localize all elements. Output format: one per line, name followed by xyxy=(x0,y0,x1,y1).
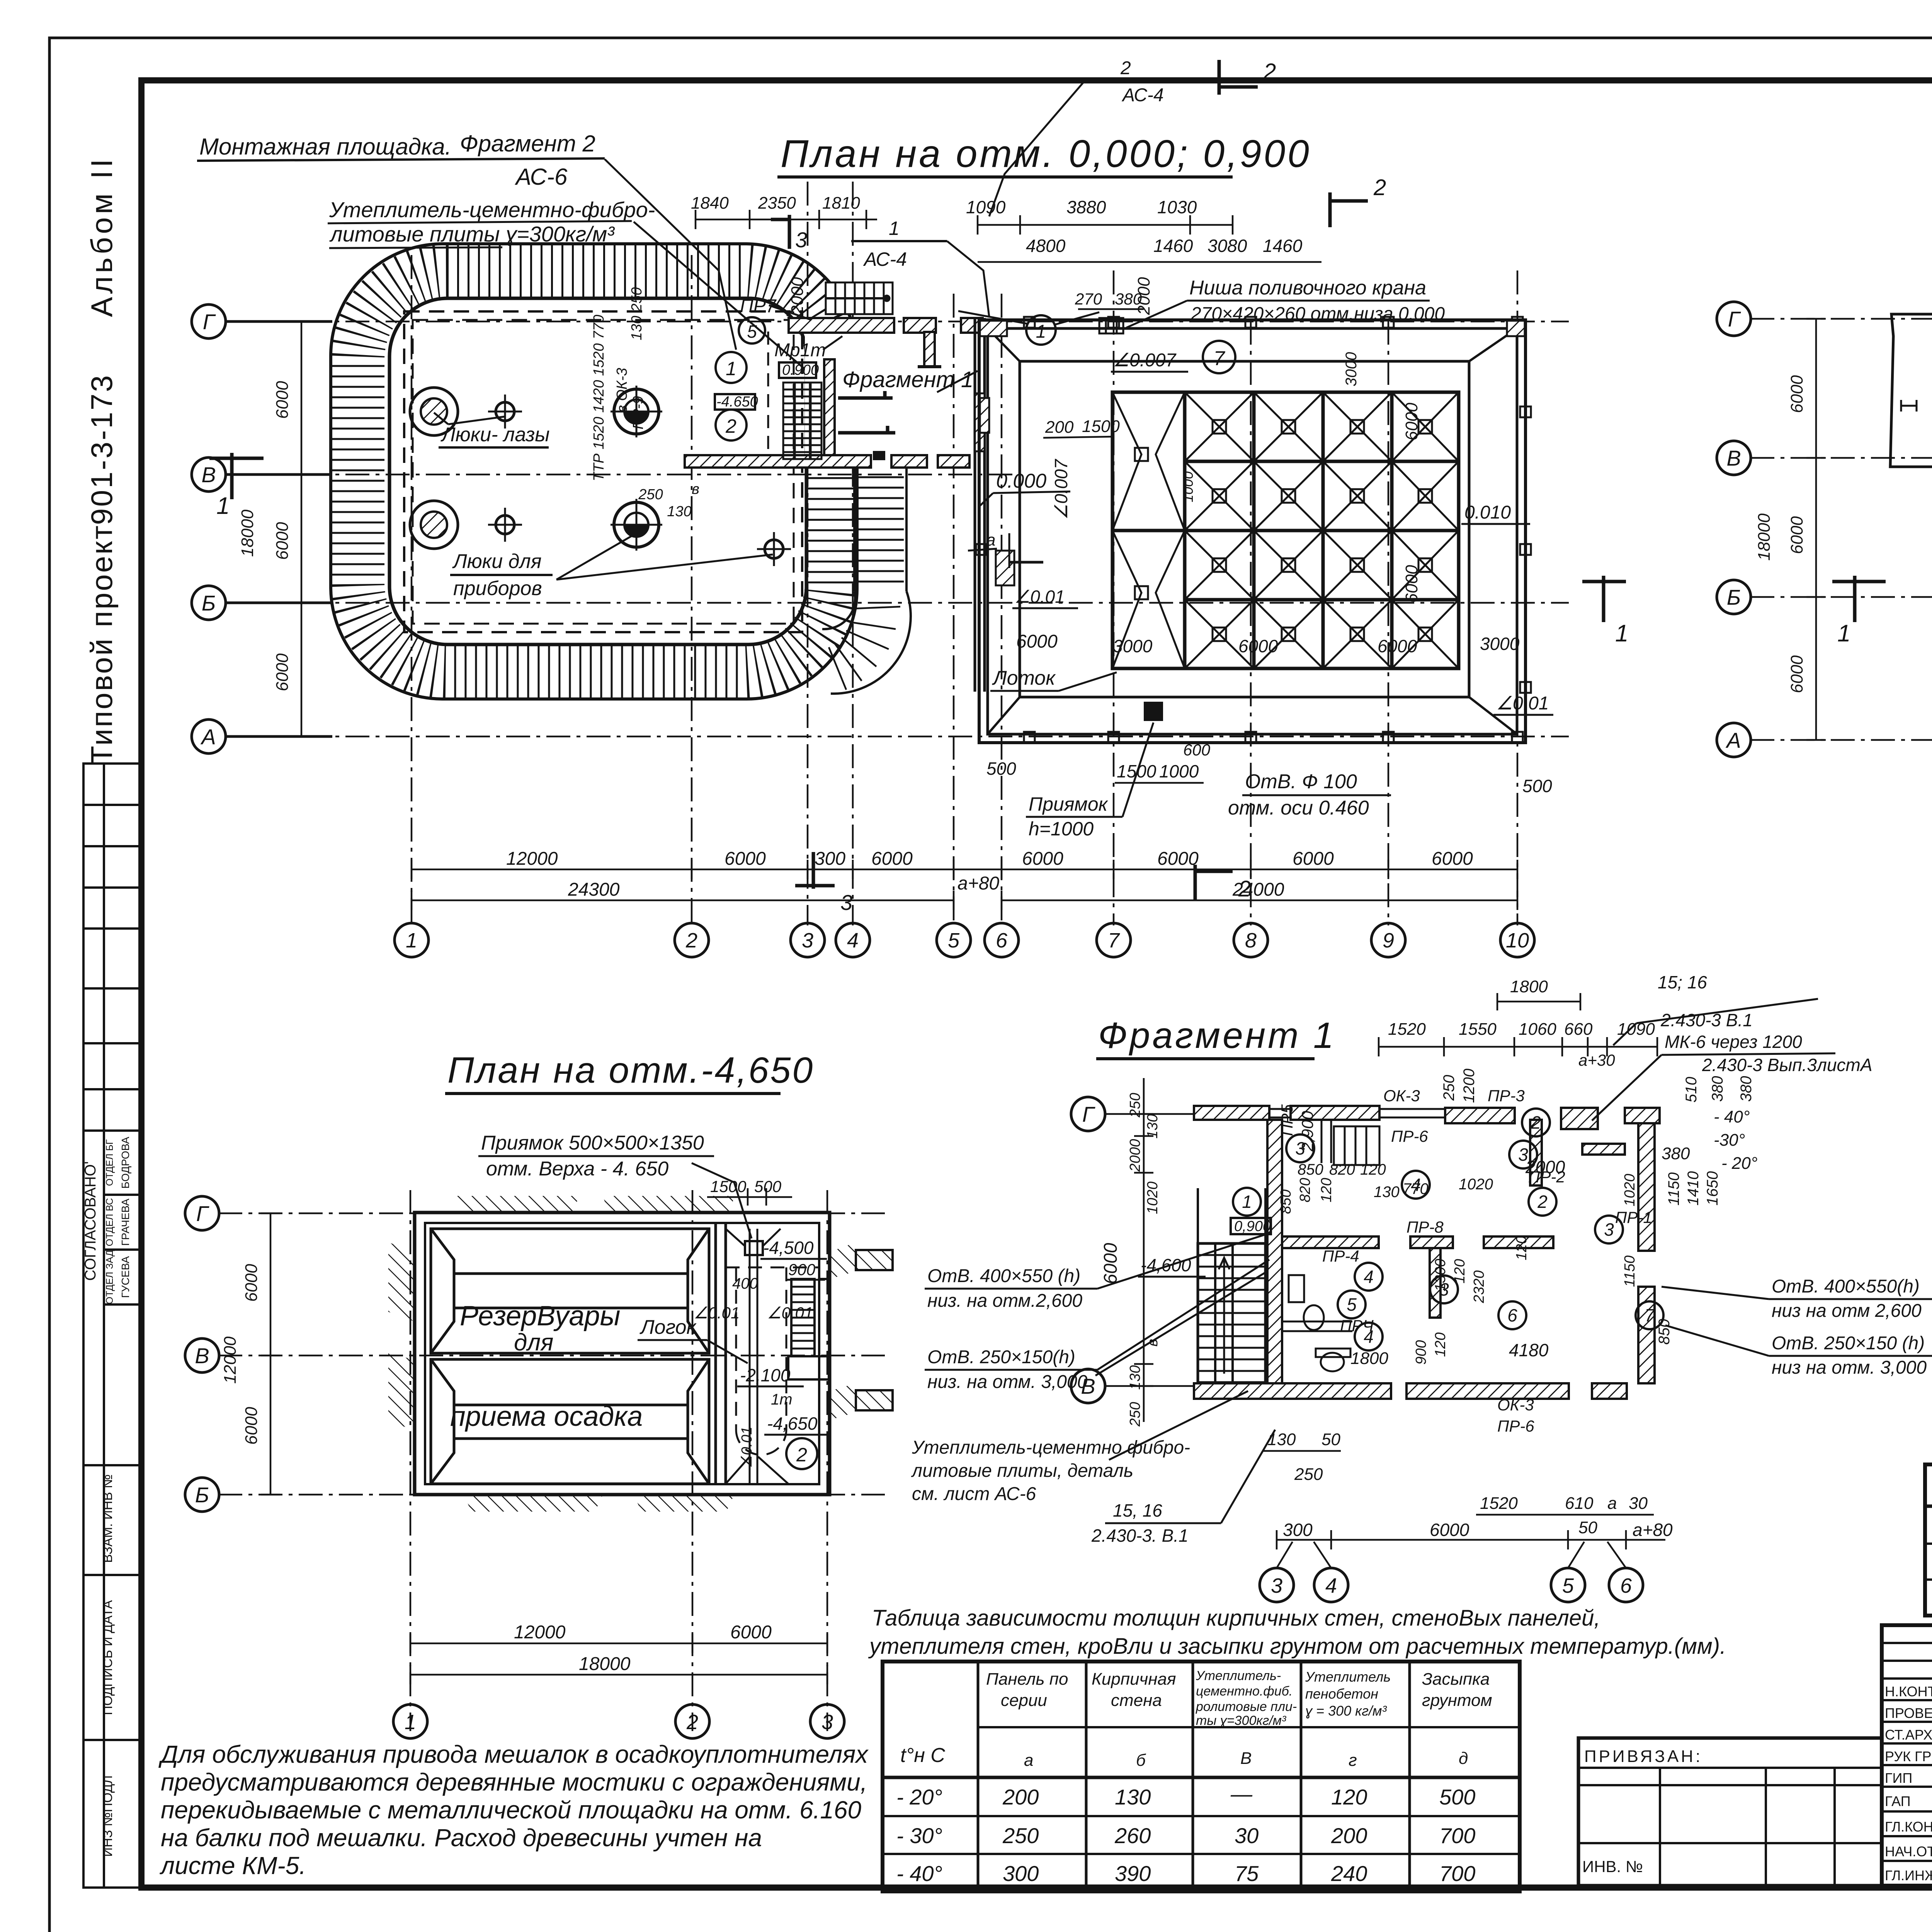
svg-text:3: 3 xyxy=(795,228,807,252)
svg-text:610: 610 xyxy=(1565,1494,1594,1513)
svg-text:18000: 18000 xyxy=(238,509,257,557)
svg-text:Г: Г xyxy=(203,310,216,334)
upper chamber xyxy=(431,1229,709,1353)
svg-text:380: 380 xyxy=(1709,1076,1726,1102)
middle wall hatched segments xyxy=(685,452,969,468)
top dimension chain xyxy=(1379,1037,1657,1056)
svg-text:д: д xyxy=(1459,1749,1468,1768)
svg-text:Утеплитель: Утеплитель xyxy=(1305,1669,1391,1685)
svg-text:700: 700 xyxy=(1439,1861,1475,1886)
svg-text:130 250: 130 250 xyxy=(629,287,645,340)
names table xyxy=(1882,1625,1932,1886)
rotated left dims xyxy=(1100,1093,1161,1427)
annex outline xyxy=(1890,314,1932,467)
outer wall xyxy=(415,1213,830,1495)
svg-text:отм. Верха - 4. 650: отм. Верха - 4. 650 xyxy=(486,1158,668,1180)
svg-text:РУК ГР: РУК ГР xyxy=(1885,1748,1932,1764)
svg-text:5: 5 xyxy=(948,929,960,952)
svg-text:1200: 1200 xyxy=(1461,1069,1478,1103)
svg-text:ОтВ. Ф 100: ОтВ. Ф 100 xyxy=(1245,770,1357,793)
top dim chain 1090 3880 1030 xyxy=(978,215,1233,235)
svg-text:3000: 3000 xyxy=(1343,352,1360,386)
svg-text:7: 7 xyxy=(1108,929,1120,952)
svg-text:18000: 18000 xyxy=(579,1654,631,1674)
svg-text:ПР-3: ПР-3 xyxy=(1488,1087,1525,1105)
svg-text:Монтажная площадка.: Монтажная площадка. xyxy=(199,134,451,160)
svg-text:ПР-9: ПР-9 xyxy=(630,396,646,430)
svg-text:12000: 12000 xyxy=(506,849,558,869)
svg-text:260: 260 xyxy=(1114,1823,1151,1848)
svg-text:120: 120 xyxy=(1318,1178,1335,1202)
svg-text:ОТДЕЛ БГ: ОТДЕЛ БГ xyxy=(104,1139,115,1186)
section mark 3 top xyxy=(771,215,789,249)
svg-text:ПР-8: ПР-8 xyxy=(1406,1218,1444,1236)
svg-text:листе КМ-5.: листе КМ-5. xyxy=(159,1852,306,1879)
svg-text:Альбом II: Альбом II xyxy=(85,156,119,317)
earth hatch patches xyxy=(388,1196,856,1512)
small stair top xyxy=(1334,1126,1379,1165)
ref 15,16 bottom xyxy=(1091,1430,1275,1546)
bottom axis bubbles xyxy=(393,1704,844,1738)
svg-text:250: 250 xyxy=(638,486,663,503)
svg-text:380: 380 xyxy=(1662,1144,1690,1163)
svg-text:-2,100: -2,100 xyxy=(740,1365,791,1385)
bottom axis bubbles xyxy=(395,923,1534,957)
svg-text:В: В xyxy=(1240,1749,1252,1768)
svg-text:АС-6: АС-6 xyxy=(515,164,568,190)
left axis bubbles xyxy=(1717,302,1751,757)
svg-text:a+30: a+30 xyxy=(1578,1051,1615,1069)
margin stamp table grid xyxy=(83,764,141,1888)
svg-text:ОТДЕЛ ЗАД: ОТДЕЛ ЗАД xyxy=(104,1250,115,1304)
svg-text:700: 700 xyxy=(1439,1823,1475,1848)
osnovnye table grid xyxy=(1925,1464,1932,1616)
svg-text:6000: 6000 xyxy=(730,1622,772,1643)
svg-text:6000: 6000 xyxy=(1787,516,1806,554)
svg-text:ПРОВЕР.: ПРОВЕР. xyxy=(1885,1705,1932,1721)
svg-text:130: 130 xyxy=(1127,1365,1143,1389)
svg-text:6: 6 xyxy=(996,929,1008,952)
svg-text:Мр1т: Мр1т xyxy=(774,340,826,361)
svg-text:в: в xyxy=(692,481,699,497)
svg-text:30: 30 xyxy=(1629,1494,1648,1513)
section mark T right of plan B xyxy=(1582,576,1626,622)
note text bottom left xyxy=(158,1740,869,1879)
svg-text:1550: 1550 xyxy=(1459,1020,1497,1039)
curved ramp strip xyxy=(854,467,906,591)
top wall hatched segments xyxy=(789,318,983,333)
main vertical wall xyxy=(1267,1120,1282,1383)
svg-text:2: 2 xyxy=(1263,59,1276,84)
svg-text:∠0.01: ∠0.01 xyxy=(1014,587,1065,607)
label lyuki-lazy xyxy=(434,413,773,600)
room bubble 1 xyxy=(716,352,747,383)
svg-text:3: 3 xyxy=(802,929,813,952)
svg-text:1800: 1800 xyxy=(1510,977,1548,996)
svg-text:500: 500 xyxy=(986,759,1016,779)
svg-text:6000: 6000 xyxy=(1378,636,1417,656)
svg-text:цементно.фиб.: цементно.фиб. xyxy=(1196,1684,1293,1699)
svg-text:ПР-4: ПР-4 xyxy=(1322,1247,1359,1265)
svg-text:500: 500 xyxy=(1522,776,1552,796)
top wall band xyxy=(1194,1106,1660,1129)
svg-text:4800: 4800 xyxy=(1026,236,1066,256)
svg-text:Люки для: Люки для xyxy=(452,550,542,573)
svg-text:1800: 1800 xyxy=(1350,1349,1388,1368)
right hole notes xyxy=(1662,1276,1932,1378)
svg-text:Г: Г xyxy=(1082,1102,1095,1126)
svg-text:4: 4 xyxy=(847,929,859,952)
tank wall inner edge xyxy=(389,298,806,645)
fragment bracket bottom xyxy=(838,426,895,433)
interior labels xyxy=(1278,1087,1690,1435)
svg-text:120: 120 xyxy=(1452,1259,1468,1283)
bottom axis dim chain row1 xyxy=(412,860,1517,879)
svg-text:6000: 6000 xyxy=(1016,631,1058,652)
svg-text:НАЧ.ОТД.: НАЧ.ОТД. xyxy=(1885,1844,1932,1859)
axis ref bubble 1 xyxy=(1026,315,1056,345)
left vertical dimension chain xyxy=(292,321,311,736)
svg-text:∠0.007: ∠0.007 xyxy=(1051,459,1071,520)
svg-text:18000: 18000 xyxy=(1755,513,1774,561)
fraction 1/AC-4 xyxy=(851,218,989,317)
svg-text:0,900: 0,900 xyxy=(1234,1218,1271,1235)
svg-text:270: 270 xyxy=(1075,290,1102,308)
svg-text:1020: 1020 xyxy=(1459,1176,1493,1193)
svg-text:1: 1 xyxy=(216,493,230,519)
svg-text:1460: 1460 xyxy=(1153,236,1193,256)
svg-text:901-3-173: 901-3-173 xyxy=(85,374,119,525)
svg-text:1520: 1520 xyxy=(1480,1494,1518,1513)
svg-text:2: 2 xyxy=(1537,1192,1548,1212)
svg-text:1020: 1020 xyxy=(1622,1174,1638,1207)
svg-text:План на отм. 0,000; 0,900: План на отм. 0,000; 0,900 xyxy=(781,132,1311,175)
inner dashed boundary xyxy=(404,311,802,632)
svg-text:6000: 6000 xyxy=(1402,565,1421,603)
svg-text:1810: 1810 xyxy=(822,194,860,213)
svg-text:низ на отм. 3,000: низ на отм. 3,000 xyxy=(1772,1357,1927,1378)
axis row lines xyxy=(1750,319,1932,740)
svg-text:2: 2 xyxy=(1373,175,1386,200)
svg-text:6000: 6000 xyxy=(273,522,292,560)
svg-text:- 20°: - 20° xyxy=(1721,1154,1757,1173)
svg-text:0.000: 0.000 xyxy=(996,470,1046,492)
svg-text:1: 1 xyxy=(406,929,417,952)
insulation note bottom left xyxy=(911,1391,1248,1504)
svg-text:План на отм.-4,650: План на отм.-4,650 xyxy=(447,1050,814,1091)
svg-text:1840: 1840 xyxy=(691,194,729,213)
dim 1460 3080 1460 xyxy=(1153,236,1303,256)
room bubble 5 xyxy=(739,317,765,344)
svg-text:1500: 1500 xyxy=(710,1177,747,1196)
svg-text:2.430-3. В.1: 2.430-3. В.1 xyxy=(1091,1526,1189,1546)
svg-text:3: 3 xyxy=(840,890,852,915)
svg-text:- 40°: - 40° xyxy=(896,1861,942,1886)
svg-text:24300: 24300 xyxy=(568,879,620,900)
svg-text:1000: 1000 xyxy=(1159,761,1199,781)
priyamok callout xyxy=(478,1132,752,1238)
boxed level 0.900 xyxy=(779,362,816,378)
manhole hatch left top xyxy=(410,386,791,566)
ref MK-6 xyxy=(1592,1032,1872,1121)
corner diagonals xyxy=(988,328,1517,734)
curved ramp quarter turn xyxy=(822,591,911,694)
svg-text:Приямок: Приямок xyxy=(1029,793,1109,815)
svg-text:1т: 1т xyxy=(771,1391,793,1408)
svg-text:2: 2 xyxy=(685,929,697,952)
left axis bubbles xyxy=(192,304,332,753)
labels right section xyxy=(694,1238,831,1468)
svg-text:ты ɣ=300кг/м³: ты ɣ=300кг/м³ xyxy=(1196,1713,1287,1728)
svg-text:В: В xyxy=(201,463,216,487)
svg-text:см. лист АС-6: см. лист АС-6 xyxy=(912,1484,1036,1504)
room bubble 7 xyxy=(1203,341,1235,373)
rotated margin text Album II / project number xyxy=(85,156,119,764)
svg-text:6000: 6000 xyxy=(1787,375,1806,413)
bottom axis dim chain xyxy=(1277,1530,1665,1549)
section mark 1 left xyxy=(209,453,264,499)
svg-text:-4,650: -4,650 xyxy=(767,1413,818,1434)
svg-text:50: 50 xyxy=(1578,1518,1597,1537)
bottom inside dims 3000 6000 6000 3000 xyxy=(1113,634,1520,656)
svg-text:А: А xyxy=(1725,728,1741,752)
svg-text:6000: 6000 xyxy=(273,381,292,419)
svg-text:отм. оси 0.460: отм. оси 0.460 xyxy=(1228,797,1369,819)
svg-text:АС-4: АС-4 xyxy=(1121,85,1164,105)
bottom wall band xyxy=(1194,1383,1627,1399)
stair block xyxy=(1198,1188,1265,1383)
column marks on walls xyxy=(976,317,1531,743)
room bubbles xyxy=(1233,1109,1663,1350)
svg-text:низ. на отм.2,600: низ. на отм.2,600 xyxy=(927,1291,1082,1311)
outer wall double rect xyxy=(979,320,1526,743)
svg-text:3000: 3000 xyxy=(1113,636,1153,656)
bottom axis bubbles xyxy=(1260,1568,1643,1602)
svg-text:ГУСЕВА: ГУСЕВА xyxy=(119,1256,131,1298)
ref 15;16 fraction xyxy=(1613,972,1818,1045)
svg-text:ГРАЧЕВА: ГРАЧЕВА xyxy=(119,1199,131,1246)
svg-text:-4.650: -4.650 xyxy=(716,394,758,410)
svg-text:3880: 3880 xyxy=(1066,197,1106,217)
svg-text:3080: 3080 xyxy=(1207,236,1247,256)
svg-text:стена: стена xyxy=(1111,1691,1162,1710)
svg-text:15, 16: 15, 16 xyxy=(1113,1500,1162,1520)
svg-text:БОДРОВА: БОДРОВА xyxy=(119,1136,131,1189)
section flag 2 top xyxy=(1219,60,1258,95)
svg-text:-30°: -30° xyxy=(1714,1131,1745,1150)
stairs right xyxy=(788,1279,830,1379)
svg-text:ГИП: ГИП xyxy=(1885,1770,1912,1786)
svg-text:1060: 1060 xyxy=(1519,1020,1556,1039)
svg-text:850: 850 xyxy=(1278,1189,1294,1214)
grid axis column lines xyxy=(412,182,1517,925)
svg-text:РезерВуары: РезерВуары xyxy=(460,1301,620,1332)
svg-text:200: 200 xyxy=(1045,418,1074,437)
svg-text:перекидываемые с металлической: перекидываемые с металлической площадки … xyxy=(161,1796,862,1824)
svg-text:240: 240 xyxy=(1331,1861,1367,1886)
svg-text:утеплителя стен, кроВли и з: утеплителя стен, кроВли и засыпки грунто… xyxy=(868,1634,1726,1659)
svg-text:литовые плиты ɣ=300кг/м³: литовые плиты ɣ=300кг/м³ xyxy=(329,222,615,246)
svg-text:1: 1 xyxy=(1837,620,1850,647)
svg-text:4180: 4180 xyxy=(1509,1340,1549,1360)
svg-text:130: 130 xyxy=(1145,1114,1161,1138)
svg-text:ПР5: ПР5 xyxy=(1278,1104,1296,1136)
svg-text:ОтВ. 400×550(h): ОтВ. 400×550(h) xyxy=(1772,1276,1920,1297)
svg-text:6000: 6000 xyxy=(1402,403,1421,440)
dashed zone xyxy=(726,1267,819,1455)
bottom axis dim chain row2 xyxy=(412,891,1517,910)
svg-text:a: a xyxy=(1607,1494,1617,1513)
wc fixtures xyxy=(1289,1275,1350,1371)
left dim chain xyxy=(1806,319,1826,740)
svg-text:6000: 6000 xyxy=(1238,636,1278,656)
svg-text:120: 120 xyxy=(1360,1161,1386,1178)
right side angled dims xyxy=(1656,1107,1757,1345)
svg-text:∠0.01: ∠0.01 xyxy=(739,1427,755,1468)
fraction 2/AC-4 xyxy=(989,58,1219,216)
svg-text:130: 130 xyxy=(667,503,691,520)
label nisha polivochnogo krana xyxy=(1126,277,1445,328)
svg-text:1: 1 xyxy=(405,1711,416,1734)
svg-text:Ниша поливочного крана: Ниша поливочного крана xyxy=(1189,277,1426,299)
svg-text:4: 4 xyxy=(1364,1267,1374,1287)
svg-text:литовые плиты, деталь: литовые плиты, деталь xyxy=(911,1461,1133,1481)
svg-text:Типовой проект: Типовой проект xyxy=(85,524,119,764)
svg-text:7: 7 xyxy=(1214,347,1226,370)
svg-text:1000: 1000 xyxy=(1180,471,1196,502)
svg-text:6000: 6000 xyxy=(1293,849,1334,869)
pit blocks right outside xyxy=(856,1250,893,1410)
svg-text:4: 4 xyxy=(1325,1574,1337,1597)
grid axis row lines xyxy=(225,321,1569,736)
interior vertical wall xyxy=(824,359,835,459)
fragment bracket top xyxy=(838,391,893,398)
rotated interior dims xyxy=(1278,1174,1638,1365)
svg-text:12000: 12000 xyxy=(221,1336,240,1384)
svg-text:30: 30 xyxy=(1235,1823,1259,1848)
svg-text:предусматриваются деревянные м: предусматриваются деревянные мостики с о… xyxy=(161,1768,867,1796)
svg-text:Логок: Логок xyxy=(639,1316,697,1338)
section flag 2 right xyxy=(1330,192,1368,227)
svg-text:6000: 6000 xyxy=(1430,1520,1469,1540)
dashed room divider xyxy=(767,332,769,455)
interior walls xyxy=(1282,1120,1655,1383)
embankment tick band xyxy=(358,271,832,672)
svg-text:1150: 1150 xyxy=(1622,1255,1638,1287)
svg-text:a+80: a+80 xyxy=(1633,1520,1673,1540)
svg-text:ОтВ. 250×150(h): ОтВ. 250×150(h) xyxy=(927,1347,1075,1367)
svg-text:В: В xyxy=(195,1344,209,1368)
section mark 3 bottom xyxy=(795,852,835,889)
svg-text:ПР-6: ПР-6 xyxy=(1497,1417,1534,1435)
priyamok note xyxy=(1026,723,1153,840)
svg-text:∠0.007: ∠0.007 xyxy=(1113,350,1177,371)
svg-text:Фрагмент 1: Фрагмент 1 xyxy=(1098,1015,1336,1056)
svg-text:-4,500: -4,500 xyxy=(763,1238,814,1258)
svg-text:1: 1 xyxy=(889,218,900,239)
section flag 2 bottom xyxy=(1195,865,1233,900)
axis row lines xyxy=(218,1190,885,1731)
svg-text:130: 130 xyxy=(1374,1184,1400,1201)
svg-text:пенобетон: пенобетон xyxy=(1305,1686,1378,1702)
thickness table grid xyxy=(883,1662,1520,1891)
svg-text:Фрагмент 2: Фрагмент 2 xyxy=(460,131,595,156)
svg-text:низ. на отм. 3,000: низ. на отм. 3,000 xyxy=(927,1372,1088,1392)
svg-text:390: 390 xyxy=(1115,1861,1151,1886)
chamber labels xyxy=(450,1301,643,1432)
svg-text:МК-6 через 1200: МК-6 через 1200 xyxy=(1665,1032,1802,1052)
svg-text:6000: 6000 xyxy=(871,849,913,869)
svg-text:1500: 1500 xyxy=(1082,417,1120,436)
left hole notes xyxy=(925,1233,1271,1392)
svg-text:—: — xyxy=(1230,1782,1253,1806)
svg-text:Приямок 500×500×1350: Приямок 500×500×1350 xyxy=(481,1132,704,1154)
svg-text:2: 2 xyxy=(1531,1112,1541,1133)
svg-text:в ОК-3: в ОК-3 xyxy=(614,368,630,413)
svg-text:1410: 1410 xyxy=(1685,1171,1702,1206)
svg-text:ВЗАМ. ИНВ №: ВЗАМ. ИНВ № xyxy=(100,1474,115,1563)
small instrument hole top xyxy=(496,402,514,421)
svg-text:Утеплитель-цементно-фибро-: Утеплитель-цементно-фибро- xyxy=(329,197,655,222)
section mark 1 left xyxy=(1832,576,1886,622)
svg-text:ГЛ.КОНСТР: ГЛ.КОНСТР xyxy=(1885,1819,1932,1835)
svg-text:1520: 1520 xyxy=(1388,1020,1426,1039)
svg-text:Г: Г xyxy=(1728,307,1741,331)
svg-text:ОтВ. 400×550 (h): ОтВ. 400×550 (h) xyxy=(927,1266,1080,1286)
svg-text:∠0,01: ∠0,01 xyxy=(767,1304,813,1322)
svg-text:ТТР 1520 1420 1520 770: ТТР 1520 1420 1520 770 xyxy=(591,315,607,481)
svg-text:5: 5 xyxy=(1562,1574,1574,1597)
svg-text:2000: 2000 xyxy=(1525,1157,1565,1177)
svg-text:h=1000: h=1000 xyxy=(1029,818,1094,840)
right wall of annex xyxy=(975,318,985,692)
svg-text:ГЛ.ИНЖ.ПР: ГЛ.ИНЖ.ПР xyxy=(1885,1867,1932,1883)
svg-text:на балки под мешалки. Расход д: на балки под мешалки. Расход древесины у… xyxy=(161,1824,762,1852)
svg-text:1020: 1020 xyxy=(1145,1182,1161,1214)
svg-text:120: 120 xyxy=(1432,1332,1449,1357)
svg-text:2: 2 xyxy=(686,1711,698,1734)
svg-text:6000: 6000 xyxy=(1022,849,1063,869)
svg-text:130: 130 xyxy=(1115,1785,1151,1809)
svg-text:900: 900 xyxy=(1413,1340,1429,1364)
svg-text:250: 250 xyxy=(1294,1465,1323,1484)
envelope diagonals col1 hourglass xyxy=(1112,392,1185,668)
svg-text:850: 850 xyxy=(1298,1161,1323,1178)
svg-text:8: 8 xyxy=(1245,929,1257,952)
svg-text:3000: 3000 xyxy=(1480,634,1520,654)
svg-text:приборов: приборов xyxy=(453,577,542,600)
envelope cell grid xyxy=(1112,392,1459,668)
svg-text:1: 1 xyxy=(1615,620,1628,647)
walkway channel rect xyxy=(1020,361,1469,697)
svg-text:2000: 2000 xyxy=(788,277,807,315)
svg-text:Панель по: Панель по xyxy=(986,1670,1068,1689)
svg-text:1: 1 xyxy=(1036,321,1046,342)
svg-text:г: г xyxy=(1349,1751,1357,1770)
svg-text:ПР-1: ПР-1 xyxy=(1615,1208,1652,1226)
svg-text:ПРИВЯЗАН:: ПРИВЯЗАН: xyxy=(1584,1747,1702,1766)
svg-text:380: 380 xyxy=(1738,1076,1755,1102)
bottom small dims xyxy=(1267,1430,1648,1537)
svg-text:6000: 6000 xyxy=(242,1264,261,1302)
bottom dim chain xyxy=(410,1634,827,1653)
room bubble 2 xyxy=(716,410,747,440)
svg-text:1300: 1300 xyxy=(1432,1259,1449,1292)
svg-text:300: 300 xyxy=(1003,1861,1039,1886)
small hole right xyxy=(765,540,783,558)
embankment outer edge xyxy=(331,244,857,699)
svg-text:130: 130 xyxy=(1267,1430,1296,1449)
